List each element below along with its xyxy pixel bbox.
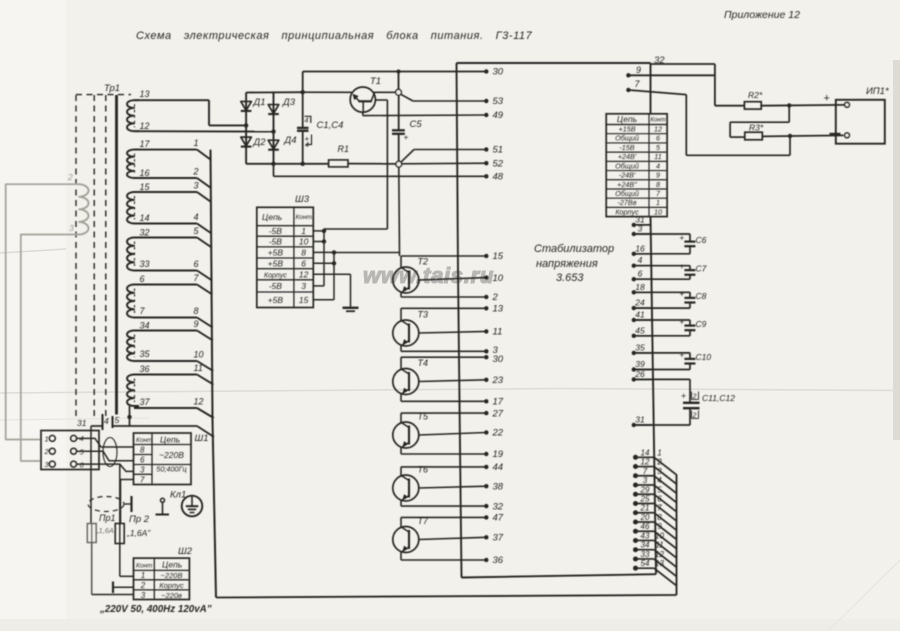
svg-text:1: 1 <box>45 434 49 443</box>
svg-text:54: 54 <box>641 559 650 568</box>
svg-text:20: 20 <box>640 513 650 522</box>
svg-text:2: 2 <box>67 172 73 182</box>
svg-text:Цепь: Цепь <box>262 212 282 222</box>
svg-text:Конт: Конт <box>136 437 153 444</box>
svg-text:6: 6 <box>301 258 306 268</box>
svg-text:+5В: +5В <box>268 247 284 257</box>
svg-text:Конт: Конт <box>136 563 153 570</box>
svg-text:35: 35 <box>140 349 151 359</box>
svg-text:33: 33 <box>140 259 150 269</box>
svg-text:13: 13 <box>655 559 664 568</box>
svg-text:~220В: ~220В <box>161 571 183 580</box>
svg-text:1: 1 <box>657 448 661 457</box>
svg-text:3: 3 <box>141 591 146 600</box>
svg-text:12: 12 <box>641 458 650 467</box>
svg-text:10: 10 <box>194 350 204 360</box>
svg-text:Корпус: Корпус <box>264 272 287 279</box>
svg-text:26: 26 <box>634 369 645 379</box>
svg-text:+: + <box>680 290 685 299</box>
svg-text:8: 8 <box>301 247 306 257</box>
svg-text:24: 24 <box>634 298 645 308</box>
svg-text:„220V 50, 400Hz 120vА”: „220V 50, 400Hz 120vА” <box>99 604 212 615</box>
svg-text:Цепь: Цепь <box>617 114 637 124</box>
svg-text:+: + <box>404 132 409 142</box>
svg-text:6: 6 <box>638 269 643 279</box>
svg-text:13: 13 <box>140 89 150 99</box>
svg-text:1: 1 <box>141 571 145 580</box>
svg-text:С9: С9 <box>696 319 707 329</box>
svg-text:8: 8 <box>656 180 660 189</box>
svg-text:Стабилизатор: Стабилизатор <box>534 243 614 255</box>
svg-text:23: 23 <box>492 375 504 386</box>
svg-text:Конт.: Конт. <box>296 214 314 221</box>
svg-text:Т4: Т4 <box>418 358 429 368</box>
svg-text:7: 7 <box>140 476 145 485</box>
svg-text:12: 12 <box>655 550 664 559</box>
svg-text:37: 37 <box>140 397 151 407</box>
svg-text:5: 5 <box>657 485 662 494</box>
svg-text:+: + <box>681 391 686 401</box>
svg-text:53: 53 <box>493 96 504 107</box>
svg-text:51: 51 <box>493 145 504 156</box>
svg-text:3.653: 3.653 <box>556 272 584 284</box>
svg-text:Т6: Т6 <box>418 465 429 475</box>
svg-text:50;400Гц: 50;400Гц <box>156 465 186 474</box>
svg-text:4: 4 <box>194 212 199 222</box>
svg-text:17: 17 <box>140 139 151 149</box>
svg-text:С8: С8 <box>696 291 707 301</box>
svg-text:11: 11 <box>655 541 663 550</box>
svg-text:6: 6 <box>140 274 145 284</box>
svg-text:15: 15 <box>299 295 309 305</box>
svg-text:С1,С4: С1,С4 <box>317 120 344 131</box>
svg-text:2: 2 <box>492 292 499 303</box>
svg-text:27: 27 <box>492 408 504 419</box>
svg-text:Д3: Д3 <box>282 97 296 108</box>
svg-text:30: 30 <box>493 67 504 78</box>
svg-text:~220В: ~220В <box>159 450 184 460</box>
svg-text:4: 4 <box>305 118 309 125</box>
svg-text:41: 41 <box>635 310 645 320</box>
svg-text:38: 38 <box>493 481 504 492</box>
svg-text:6: 6 <box>194 259 199 269</box>
svg-text:Цепь: Цепь <box>162 560 182 570</box>
svg-text:7: 7 <box>643 467 648 476</box>
svg-text:напряжения: напряжения <box>536 258 598 270</box>
svg-text:18: 18 <box>635 282 645 292</box>
svg-text:Ш2: Ш2 <box>178 546 193 557</box>
svg-text:Схема электрическая принципиал: Схема электрическая принципиальная блока… <box>136 30 533 42</box>
svg-text:1: 1 <box>656 198 660 207</box>
svg-text:10: 10 <box>493 273 504 284</box>
svg-text:14: 14 <box>641 448 650 457</box>
svg-text:25: 25 <box>640 495 650 504</box>
svg-text:Общий: Общий <box>615 189 639 198</box>
svg-text:-5В: -5В <box>269 226 283 236</box>
svg-text:10: 10 <box>655 531 664 540</box>
svg-text:3: 3 <box>301 281 306 291</box>
svg-text:Д2: Д2 <box>253 137 267 148</box>
svg-text:31: 31 <box>77 418 87 428</box>
svg-text:30: 30 <box>493 354 504 365</box>
svg-text:43: 43 <box>641 531 650 540</box>
svg-text:-5В: -5В <box>269 237 283 247</box>
svg-text:Т2: Т2 <box>418 257 429 267</box>
svg-text:31: 31 <box>635 415 645 425</box>
svg-text:29: 29 <box>640 485 650 494</box>
svg-text:36: 36 <box>140 364 150 374</box>
svg-text:Общий: Общий <box>615 161 639 170</box>
svg-text:52: 52 <box>493 158 504 169</box>
svg-text:+24В'': +24В'' <box>617 180 637 189</box>
svg-text:R2*: R2* <box>748 90 763 100</box>
svg-text:С5: С5 <box>410 119 423 130</box>
svg-text:1: 1 <box>301 226 306 236</box>
svg-text:35: 35 <box>635 342 645 352</box>
svg-text:11: 11 <box>194 363 203 373</box>
svg-text:6: 6 <box>140 456 145 465</box>
svg-text:49: 49 <box>493 110 504 121</box>
svg-text:14: 14 <box>140 213 150 223</box>
svg-text:+24В': +24В' <box>618 152 637 161</box>
svg-text:8: 8 <box>194 306 199 316</box>
svg-text:-5В: -5В <box>269 281 283 291</box>
svg-text:+: + <box>680 317 685 326</box>
svg-text:+: + <box>680 262 685 271</box>
svg-text:-15В: -15В <box>619 143 634 152</box>
svg-text:1: 1 <box>194 138 199 148</box>
svg-text:ИП1*: ИП1* <box>866 86 889 97</box>
svg-text:3: 3 <box>657 467 662 476</box>
svg-text:Ш1: Ш1 <box>195 433 209 444</box>
svg-text:С7: С7 <box>696 263 707 273</box>
svg-text:12: 12 <box>654 125 662 134</box>
svg-text:21: 21 <box>640 504 650 513</box>
svg-text:Т3: Т3 <box>418 310 429 320</box>
svg-text:11: 11 <box>654 152 661 161</box>
svg-text:„1,6А”: „1,6А” <box>95 526 117 535</box>
svg-text:-24В': -24В' <box>619 171 636 180</box>
svg-text:9: 9 <box>194 319 199 329</box>
svg-text:22: 22 <box>492 428 504 439</box>
svg-text:R1: R1 <box>338 144 350 154</box>
svg-text:11: 11 <box>493 327 503 338</box>
svg-text:47: 47 <box>493 513 504 524</box>
svg-text:~220в: ~220в <box>161 591 182 600</box>
svg-text:3: 3 <box>140 466 145 475</box>
svg-text:10: 10 <box>299 237 309 247</box>
svg-text:3: 3 <box>643 476 648 485</box>
svg-text:С10: С10 <box>696 352 712 362</box>
svg-text:9: 9 <box>656 171 660 180</box>
svg-text:R3*: R3* <box>749 123 764 133</box>
svg-text:4: 4 <box>657 476 662 485</box>
svg-text:36: 36 <box>493 555 504 566</box>
svg-text:8: 8 <box>657 513 662 522</box>
svg-text:2: 2 <box>656 458 662 467</box>
svg-text:+15В: +15В <box>619 125 636 134</box>
svg-text:37: 37 <box>493 533 504 544</box>
svg-text:Общий: Общий <box>615 134 639 143</box>
svg-text:„1,6А”: „1,6А” <box>126 528 151 538</box>
svg-text:4: 4 <box>656 161 660 170</box>
svg-text:Корпус: Корпус <box>159 581 184 590</box>
svg-text:С11,С12: С11,С12 <box>702 393 735 403</box>
svg-text:10: 10 <box>654 207 662 216</box>
svg-text:www.tais.ru: www.tais.ru <box>363 263 494 288</box>
svg-text:Ш3: Ш3 <box>295 194 310 205</box>
svg-text:Приложение 12: Приложение 12 <box>724 9 800 21</box>
svg-text:Конт: Конт <box>650 118 665 124</box>
svg-text:3: 3 <box>69 223 74 233</box>
svg-text:+: + <box>680 233 685 242</box>
svg-text:Д4: Д4 <box>284 135 297 146</box>
svg-text:+5В: +5В <box>268 295 284 305</box>
svg-text:15: 15 <box>493 251 504 262</box>
svg-text:12: 12 <box>299 269 309 279</box>
svg-text:Тр1: Тр1 <box>104 83 120 94</box>
svg-text:12: 12 <box>194 397 204 407</box>
svg-text:Цепь: Цепь <box>160 435 180 445</box>
svg-text:9: 9 <box>636 65 641 75</box>
svg-text:16: 16 <box>140 168 150 178</box>
svg-text:4: 4 <box>104 416 109 426</box>
svg-text:32: 32 <box>140 228 150 238</box>
svg-text:3: 3 <box>194 181 199 191</box>
svg-text:46: 46 <box>641 522 650 531</box>
svg-text:+5В: +5В <box>268 258 284 268</box>
svg-text:-27Вв: -27Вв <box>618 198 637 207</box>
svg-text:48: 48 <box>493 172 504 183</box>
svg-text:45: 45 <box>635 325 645 335</box>
svg-text:19: 19 <box>493 449 504 460</box>
svg-text:2: 2 <box>44 447 50 456</box>
svg-text:Пр 2: Пр 2 <box>129 514 150 525</box>
svg-text:32: 32 <box>493 501 504 512</box>
svg-text:Т1: Т1 <box>370 76 381 87</box>
svg-text:16: 16 <box>635 243 645 253</box>
svg-text:34: 34 <box>140 321 150 331</box>
svg-text:44: 44 <box>493 462 504 473</box>
svg-text:Д1: Д1 <box>253 97 266 108</box>
svg-text:34: 34 <box>641 541 650 550</box>
svg-text:33: 33 <box>641 550 650 559</box>
svg-text:4: 4 <box>305 142 309 149</box>
svg-text:13: 13 <box>493 304 504 315</box>
svg-text:7: 7 <box>657 504 662 513</box>
svg-text:6: 6 <box>657 495 662 504</box>
svg-text:4: 4 <box>638 255 643 265</box>
svg-text:2: 2 <box>140 581 146 590</box>
svg-text:6: 6 <box>656 134 660 143</box>
svg-text:12: 12 <box>140 121 150 131</box>
svg-text:8: 8 <box>140 446 145 455</box>
svg-text:2: 2 <box>193 167 199 177</box>
svg-text:15: 15 <box>140 182 151 192</box>
svg-text:17: 17 <box>493 397 504 408</box>
svg-text:С6: С6 <box>696 235 707 245</box>
svg-text:9: 9 <box>657 522 662 531</box>
svg-text:+: + <box>680 351 685 360</box>
svg-text:Пр1: Пр1 <box>99 513 116 523</box>
svg-text:+: + <box>824 93 830 105</box>
svg-text:39: 39 <box>635 359 645 369</box>
svg-text:5: 5 <box>115 415 120 425</box>
